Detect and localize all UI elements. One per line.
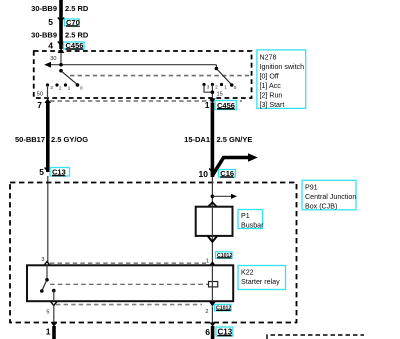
svg-text:Starter relay: Starter relay (241, 278, 280, 286)
wire relay pin5 to CJB edge (53, 305, 55, 322)
wire relay pin2 to CJB edge (211, 307, 213, 323)
svg-text:Central Junction: Central Junction (305, 193, 356, 201)
right contact 2 (211, 83, 214, 86)
K22 starter relay box (27, 265, 233, 301)
svg-text:Box (CJB): Box (CJB) (305, 203, 337, 211)
svg-text:15: 15 (217, 92, 223, 98)
svg-text:1: 1 (68, 86, 71, 91)
K22 label box (238, 266, 286, 290)
left contact 3 (46, 83, 49, 86)
svg-text:15-DA1: 15-DA1 (184, 135, 210, 144)
wire C13 into CJB down to relay (47, 176, 49, 262)
svg-text:K22: K22 (241, 269, 254, 277)
svg-text:[0] Off: [0] Off (260, 73, 279, 81)
boundary arrow out of relay pin 2 (209, 302, 216, 307)
node junction pin15 (211, 90, 215, 94)
relay output contact node (52, 289, 56, 293)
relay switch pole wire (46, 266, 48, 280)
left contact 1 (64, 83, 67, 86)
boundary arrow out of CJB (left) (51, 322, 58, 326)
boundary arrow out of switch pin 50 (44, 98, 51, 103)
svg-text:[2] Run: [2] Run (260, 92, 283, 100)
connector C16 label (219, 169, 236, 178)
arrow chevron into busbar (208, 202, 216, 206)
left contact 2 (55, 83, 58, 86)
node junction left pole (59, 63, 63, 67)
thick branch arrow to other circuit (212, 158, 249, 176)
wire relay contact to pin 5 (53, 291, 55, 302)
connector chevron C13 (45, 168, 51, 172)
svg-text:[3] Start: [3] Start (260, 101, 285, 109)
right wiper tip node (position 0) (230, 83, 234, 87)
svg-text:1: 1 (224, 85, 227, 90)
svg-text:2.5 GN/YE: 2.5 GN/YE (217, 135, 253, 144)
busbar P1 box (196, 207, 233, 236)
svg-text:P1: P1 (241, 212, 250, 220)
connector C13 label (left) (50, 168, 70, 177)
svg-text:6: 6 (205, 327, 210, 337)
bus wire between switch poles (49, 64, 216, 66)
right contact 1 (220, 83, 223, 86)
right switch pole bend (215, 65, 217, 69)
gray dashed line above relay (50, 262, 206, 264)
relay armature (open) (42, 280, 47, 290)
connector C13 label (bottom) (216, 327, 233, 337)
gray dashed line below relay (56, 304, 202, 306)
wire through busbar (211, 207, 213, 262)
left wiper arm (61, 71, 77, 84)
svg-text:2.5 GY/OG: 2.5 GY/OG (51, 135, 88, 144)
svg-text:10: 10 (199, 169, 209, 179)
boundary arrow out of switch pin 15 (209, 98, 216, 103)
relay open contact node (40, 289, 44, 293)
wire 50-BB17 2.5 GY/OG (thick) (46, 103, 50, 173)
connector chevron C70 (58, 18, 64, 22)
connector chevron C456 top (58, 42, 64, 46)
relay coil element (209, 282, 218, 287)
svg-text:1: 1 (46, 327, 51, 337)
svg-text:2: 2 (59, 86, 62, 91)
arrow chevron into relay pin 3 (44, 262, 50, 266)
right wiper pivot node (215, 67, 219, 71)
svg-text:30-BB9: 30-BB9 (31, 31, 57, 40)
connector C456 label (bottom) (215, 101, 236, 110)
wire into CJB to busbar (211, 177, 213, 207)
svg-text:1: 1 (205, 100, 210, 110)
svg-text:30: 30 (50, 56, 56, 62)
left direction arrow (44, 62, 51, 68)
inner gray dashed line (70, 75, 251, 77)
wire contact3 L-link (204, 85, 212, 92)
svg-text:2.5 RD: 2.5 RD (65, 4, 89, 13)
svg-text:0: 0 (80, 86, 83, 91)
node junction above busbar (211, 195, 215, 199)
right contact 3 (202, 83, 205, 86)
svg-text:7: 7 (37, 100, 42, 110)
arrow chevron out of busbar (208, 236, 217, 242)
P91 CJB label box (302, 180, 356, 210)
svg-text:Busbar: Busbar (241, 222, 264, 230)
svg-text:50: 50 (37, 92, 43, 98)
svg-text:0: 0 (234, 85, 237, 90)
svg-text:50-BB17: 50-BB17 (15, 135, 45, 144)
P91 central junction box dashed border (10, 183, 297, 323)
svg-text:2.5 RD: 2.5 RD (65, 31, 89, 40)
svg-text:5: 5 (39, 167, 44, 177)
gray dashed line below switch box (50, 100, 242, 102)
connector C70 label (64, 18, 79, 27)
right wiper arm (217, 69, 232, 85)
svg-text:30-BB9: 30-BB9 (31, 4, 57, 13)
wire pin30 to bus (60, 53, 62, 65)
svg-text:3: 3 (50, 85, 53, 90)
svg-text:[1] Acc: [1] Acc (260, 82, 282, 90)
branch arrow right inside CJB (212, 195, 231, 197)
wire 15-DA1 2.5 GN/YE (thick) (211, 103, 215, 178)
svg-text:Ignition switch: Ignition switch (260, 63, 305, 71)
svg-text:3: 3 (207, 85, 210, 90)
svg-text:4: 4 (48, 41, 53, 51)
N278 ignition switch label box (257, 50, 306, 109)
svg-text:5: 5 (48, 17, 53, 27)
wire through relay coil (211, 265, 213, 301)
svg-text:3: 3 (41, 257, 44, 263)
boundary arrow into relay pin 1 (209, 261, 215, 265)
thick wire to starter motor (52, 326, 56, 339)
wire contact2 down to pin 15 (211, 85, 213, 99)
connector C456 label (top) (64, 41, 85, 50)
boundary arrow into ignition switch pin 30 (58, 48, 65, 53)
relay pole node (45, 278, 49, 282)
wire contact3 to pin 50 (47, 85, 49, 98)
connector chevron C16 (209, 169, 215, 173)
connector C1012 label (top) (216, 252, 233, 259)
svg-text:C1012: C1012 (217, 253, 232, 259)
relay coil actuating dashed link (50, 283, 209, 285)
svg-text:2: 2 (215, 85, 218, 90)
svg-text:N278: N278 (260, 54, 277, 62)
connector C1012 label (bottom) (215, 304, 232, 311)
ignition switch dashed box N278 (34, 51, 252, 98)
left wiper pivot node (59, 69, 63, 73)
svg-text:2: 2 (205, 309, 208, 315)
thick wire down from C13 (211, 326, 215, 339)
boundary arrow out of CJB (right) (209, 322, 216, 326)
svg-text:1: 1 (206, 259, 209, 265)
dashed box of next component (cut off) (267, 335, 364, 339)
svg-text:C1012: C1012 (216, 306, 231, 312)
arrow chevron out of relay pin 5 (51, 302, 57, 306)
P1 busbar label box (238, 210, 264, 230)
svg-text:P91: P91 (305, 184, 318, 192)
svg-text:5: 5 (46, 310, 49, 316)
left wiper tip node (position 0) (76, 83, 80, 87)
wire 30-BB9 2.5 RD (thick feed into ignition switch) (59, 0, 63, 49)
